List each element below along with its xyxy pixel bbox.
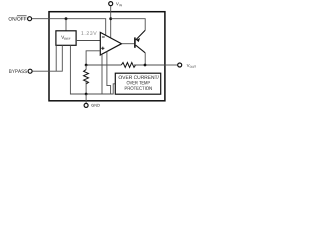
- value label 1.23V: [81, 31, 96, 35]
- wire amp output to transistor base: [122, 43, 135, 45]
- wire ON/OFF to amp top: [32, 19, 106, 36]
- wire output line right segment: [134, 64, 165, 66]
- terminal ON/OFF: [28, 17, 32, 21]
- wire VIN down to amp: [110, 6, 112, 38]
- block over-current / over-temp protection: [115, 73, 160, 94]
- pin label GND: [91, 104, 99, 107]
- wire output line left segment: [86, 64, 121, 66]
- ground rail: [70, 45, 115, 94]
- terminal VIN: [109, 2, 113, 6]
- minus input symbol: [102, 36, 105, 38]
- wire amp ground right jog: [107, 52, 111, 95]
- wire BYPASS to VREF bottom: [32, 45, 62, 71]
- node junction on ON/OFF wire: [65, 17, 68, 20]
- terminal BYPASS: [28, 69, 32, 73]
- IC outer box: [49, 12, 165, 101]
- transistor Q1 PNP pass device: [135, 30, 145, 53]
- plus input symbol: [101, 47, 104, 50]
- node ground junction: [85, 93, 88, 96]
- op-amp error amplifier: [100, 32, 121, 55]
- node output junction: [144, 64, 147, 67]
- terminal GND: [84, 103, 88, 107]
- terminal VOUT: [178, 63, 182, 67]
- wire collector down to output line: [144, 53, 146, 65]
- resistor R1: [121, 63, 135, 68]
- wire VREF output to amp inverting input: [76, 40, 100, 42]
- transistor arrow (PNP emitter into base): [136, 38, 140, 42]
- wire GND down: [85, 94, 87, 103]
- resistor R2 bottom lead: [85, 80, 87, 94]
- resistor R2 top lead: [85, 65, 87, 70]
- wire VREF second bottom lead: [55, 45, 57, 71]
- pin label BYPASS: [9, 69, 27, 73]
- wire junction to VREF top: [65, 19, 67, 31]
- block VREF U1: [56, 31, 76, 46]
- wire VIN rail to transistor emitter: [111, 19, 146, 31]
- wire feedback tap to amp + input: [86, 51, 100, 65]
- node junction VIN rail: [109, 17, 112, 20]
- wire to VOUT terminal: [165, 64, 178, 66]
- pin label VIN: [116, 2, 122, 6]
- pin label ON/OFF (overline on OFF): [9, 16, 27, 21]
- node feedback junction: [85, 64, 88, 67]
- pin label VOUT: [187, 64, 196, 68]
- wire amp ground left: [101, 54, 103, 94]
- resistor R2: [84, 70, 89, 84]
